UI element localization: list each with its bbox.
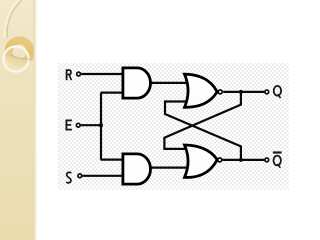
sidebar large arc	[7, 0, 22, 38]
terminal Q	[265, 90, 269, 94]
sidebar gold ring	[9, 41, 31, 63]
label Qbar	[274, 156, 281, 168]
label Q	[274, 86, 281, 98]
terminal Qbar	[265, 158, 269, 162]
wire E vertical branch	[100, 93, 102, 160]
nor-gate NOR1	[185, 74, 217, 107]
sidebar thin arc	[10, 55, 34, 60]
sidebar large arc highlight	[5, 0, 19, 38]
and-gate AND2	[123, 154, 151, 184]
junction Q	[239, 90, 243, 94]
terminal E	[76, 123, 80, 127]
bubble NOR2	[218, 158, 222, 162]
label E	[66, 120, 72, 131]
wire R to AND1	[81, 73, 122, 75]
and-gate AND1	[123, 68, 151, 98]
label S	[66, 172, 71, 183]
nor-gate NOR2	[185, 145, 217, 177]
wire S to AND2	[82, 175, 122, 177]
checker background of circuit image	[58, 63, 289, 190]
terminal R	[77, 72, 81, 76]
wire NOR2 out to Qbar	[223, 159, 265, 161]
bubble NOR1	[218, 90, 222, 94]
sidebar background	[0, 0, 34, 240]
wire AND2 out to NOR2	[151, 167, 189, 169]
wire feedback Q to NOR2 upper input	[164, 93, 241, 149]
junction Qbar	[239, 158, 243, 162]
wire E to junction	[81, 124, 101, 126]
wire AND1 out to NOR1	[151, 82, 189, 84]
sidebar right fade	[34, 0, 38, 240]
wire E branch to AND2 upper input	[101, 159, 122, 161]
junction E	[99, 123, 103, 127]
wire E branch to AND1 lower input	[101, 91, 122, 93]
wire NOR1 out to Q	[223, 91, 264, 93]
terminal S	[78, 174, 82, 178]
sidebar white ring	[3, 46, 28, 71]
label R	[67, 69, 72, 80]
wire feedback Qbar to NOR1 lower input	[165, 102, 241, 159]
Qbar overline	[273, 151, 282, 153]
